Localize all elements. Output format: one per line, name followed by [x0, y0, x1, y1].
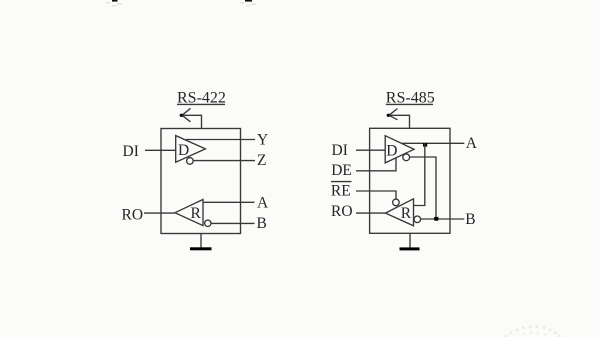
wire RO from receiver output (U2) [356, 212, 385, 214]
wire driver output A (U2) [401, 142, 464, 144]
svg-text:DI: DI [332, 142, 348, 159]
inversion bubble on driver output B (U2) [403, 154, 410, 161]
wire DI to driver input (U2) [356, 149, 385, 151]
svg-text:RO: RO [122, 207, 144, 224]
wire driver inverted output down to B net [410, 157, 436, 219]
ground symbol (U2) [400, 233, 420, 250]
inversion bubble on receiver input B (U2) [414, 216, 421, 223]
junction dot on B net [434, 217, 438, 221]
IC body U2 RS-485 transceiver [370, 128, 450, 233]
svg-text:RO: RO [331, 203, 353, 220]
junction dot on A net [423, 143, 427, 147]
svg-text:A: A [466, 135, 478, 152]
pin RE label with overline (U2) [331, 183, 351, 200]
text remnant mark top-left [112, 0, 118, 2]
wire receiver input A [203, 201, 255, 203]
label RS-422 title [177, 90, 226, 107]
wire receiver input B [211, 222, 255, 224]
svg-text:DE: DE [331, 162, 352, 179]
inversion bubble on receiver input B (U1) [205, 220, 211, 226]
inversion bubble on driver output Z (U1) [187, 158, 194, 165]
annotation arrow into RS-422 box [180, 108, 202, 128]
svg-text:R: R [401, 205, 412, 222]
label RS-485 title [386, 90, 435, 107]
svg-text:DI: DI [123, 143, 139, 160]
text remnant mark top-right [245, 0, 252, 2]
wire RO from receiver output [144, 212, 175, 214]
svg-text:Y: Y [257, 131, 268, 148]
svg-text:RE: RE [331, 183, 351, 200]
svg-text:R: R [191, 205, 202, 222]
receiver R of U2 [385, 199, 413, 226]
svg-text:D: D [178, 142, 189, 159]
wire DE to driver enable [356, 158, 396, 171]
wire driver output Y [186, 139, 255, 141]
wire DI to driver input [145, 149, 176, 151]
svg-text:B: B [257, 215, 267, 232]
faint watermark arc bottom-right [505, 325, 562, 337]
ground symbol (U1) [190, 234, 212, 251]
IC body U1 RS-422 transceiver [161, 129, 241, 234]
wire receiver input B to pin B [421, 218, 465, 220]
driver D of U1 [176, 136, 206, 163]
receiver enable bubble (U2) [393, 199, 400, 206]
annotation arrow into RS-485 box [387, 109, 410, 129]
svg-text:D: D [386, 142, 397, 159]
svg-text:B: B [465, 211, 475, 228]
wire RE to receiver enable bubble [356, 191, 396, 199]
driver D of U2 [385, 136, 414, 163]
wire driver output Z [193, 160, 255, 162]
svg-text:Z: Z [257, 152, 266, 169]
wire A net to receiver top input [414, 143, 425, 205]
svg-text:A: A [257, 194, 269, 211]
receiver R of U1 [175, 200, 203, 226]
